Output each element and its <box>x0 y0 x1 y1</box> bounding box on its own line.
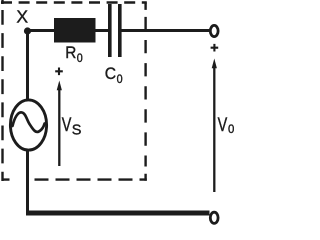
wire resistor R0 to capacitor C0 <box>95 29 109 32</box>
svg-text:R: R <box>65 45 76 63</box>
AC source sine wave <box>13 112 45 132</box>
node X junction dot <box>24 27 31 34</box>
plus sign for V0 polarity <box>211 44 219 52</box>
capacitor C0 left plate <box>108 4 112 57</box>
V0 arrow shaft <box>213 67 215 193</box>
svg-text:C: C <box>105 65 116 83</box>
dashed boundary box left edge <box>1 0 3 181</box>
dashed boundary box bottom edge <box>2 178 147 180</box>
output terminal bottom (open circle) <box>210 212 218 223</box>
AC source VS circle <box>10 100 46 150</box>
plus sign for VS polarity <box>55 68 63 76</box>
wire capacitor C0 to output terminal <box>122 29 210 32</box>
wire node X down to source VS <box>26 29 29 100</box>
svg-text:V: V <box>62 114 72 135</box>
dashed boundary box right edge <box>144 3 146 181</box>
VS arrowhead <box>57 81 62 91</box>
svg-text:V: V <box>218 114 228 135</box>
resistor R0 body <box>54 18 96 43</box>
V0 arrowhead <box>212 59 217 69</box>
wire node X to resistor R0 <box>26 29 55 32</box>
bottom return wire <box>26 211 210 216</box>
VS arrow shaft <box>58 89 60 167</box>
svg-text:X: X <box>16 7 28 27</box>
svg-text:0: 0 <box>77 53 83 66</box>
svg-text:0: 0 <box>117 74 123 87</box>
wire source VS down to bottom rail <box>26 150 29 214</box>
capacitor C0 right plate <box>118 4 122 57</box>
svg-text:S: S <box>72 123 82 139</box>
svg-text:0: 0 <box>228 123 234 136</box>
output terminal top (open circle) <box>210 25 218 36</box>
dashed boundary box top edge <box>1 1 147 3</box>
